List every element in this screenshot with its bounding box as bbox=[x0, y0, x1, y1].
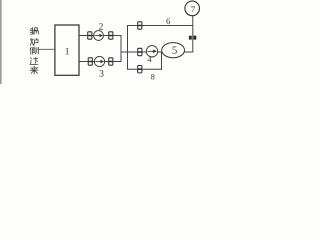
wire: top pipe from box bbox=[79, 35, 121, 37]
label text 锅炉侧过来 (vertical, drawn glyphs) bbox=[30, 27, 38, 74]
wire: top branch bbox=[128, 25, 193, 27]
valve middle branch bbox=[138, 48, 142, 51]
check valve (solid) on right vertical bbox=[189, 36, 192, 40]
wire: header vertical bbox=[120, 35, 122, 62]
pump 4 bbox=[146, 46, 157, 57]
valve top branch bbox=[138, 22, 142, 25]
label 2 bbox=[99, 23, 103, 29]
expansion tank 7 bbox=[185, 1, 200, 16]
valve top pipe right bbox=[109, 32, 113, 35]
box 1 (boiler-side heat exchanger) bbox=[55, 25, 79, 75]
valve bottom pipe left bbox=[88, 58, 92, 61]
leader line from text to box 1 bbox=[38, 48, 55, 50]
valve top pipe left bbox=[88, 32, 92, 35]
label 3 bbox=[100, 70, 104, 77]
wire: manifold vertical bbox=[127, 25, 129, 70]
label 6 bbox=[166, 18, 170, 24]
pump 2 bbox=[94, 31, 104, 41]
label 5 bbox=[172, 46, 176, 53]
pump 5 (ellipse) bbox=[162, 43, 185, 58]
wire: riser from bottom branch to pump 5 bbox=[161, 52, 163, 70]
wire: bottom pipe from box bbox=[79, 61, 121, 63]
label 1 bbox=[66, 48, 69, 54]
label 8 bbox=[151, 74, 154, 80]
valve bottom branch bbox=[138, 66, 142, 69]
wire: bottom branch bbox=[128, 68, 163, 70]
label 4 bbox=[148, 57, 152, 62]
wire: right vertical from tank 7 bbox=[192, 16, 194, 52]
label 7 bbox=[191, 7, 195, 13]
valve bottom pipe right bbox=[109, 58, 113, 61]
pump 3 bbox=[94, 56, 104, 66]
wire: middle branch bbox=[121, 51, 193, 53]
page scan edge (left border line) bbox=[0, 0, 2, 84]
